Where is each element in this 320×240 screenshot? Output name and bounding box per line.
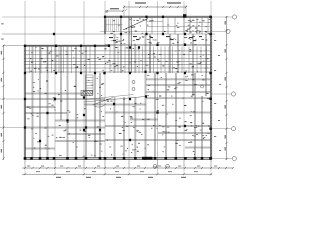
stair diagonal top wing	[123, 19, 148, 31]
grid ext right y158	[212, 158, 232, 160]
stair treads top wing	[105, 19, 123, 32]
grid line y34	[2, 33, 215, 35]
left block beams vertical	[32, 46, 101, 158]
wall left block top	[24, 44, 110, 46]
cell labels right upper	[109, 36, 202, 41]
text specks left block	[27, 78, 104, 156]
grid ext left y127	[0, 127, 24, 129]
grid bubble 1	[232, 15, 236, 19]
detail circle 1	[153, 164, 157, 168]
grid bubble 5	[232, 156, 236, 160]
grid line y17	[2, 16, 232, 18]
ramp diagonal 1	[84, 97, 146, 103]
grid ext left y99	[0, 98, 24, 100]
void circles	[132, 81, 135, 84]
text specks corridor band	[28, 47, 208, 73]
middle stair treads	[86, 75, 94, 95]
ramp arrow	[93, 98, 114, 106]
right block beams vertical	[114, 17, 207, 158]
top wing partitions	[147, 18, 212, 35]
wall bottom edge	[24, 157, 212, 159]
text specks right block	[147, 75, 211, 155]
grid line y45.7	[3, 45, 110, 47]
grid bubble 4	[231, 127, 235, 131]
vertical grid lines	[25, 1, 211, 168]
grid bubble 3	[231, 92, 235, 96]
grid ext right y128	[212, 128, 231, 130]
wall left edge	[23, 45, 25, 160]
text specks right upper	[111, 36, 207, 45]
detail circle 2	[166, 164, 170, 168]
wall wing left edge	[103, 16, 105, 34]
top dimension line	[123, 2, 187, 16]
right dimension line	[225, 16, 228, 160]
column blob wing top	[183, 14, 186, 17]
detail circle right wall	[201, 85, 204, 88]
top dimension small	[106, 8, 124, 12]
grid line y31	[100, 30, 225, 32]
corridor band beams	[24, 44, 211, 72]
text specks right top block	[187, 19, 211, 33]
left dimension line	[1, 45, 5, 160]
right margin specks	[214, 40, 221, 151]
right block beams horizontal	[84, 79, 211, 148]
columns	[24, 16, 212, 160]
column cluster bottom	[142, 157, 153, 160]
bottom dimension line 1	[22, 166, 234, 170]
grid bubble 2	[226, 29, 230, 33]
tick cross top	[125, 9, 127, 11]
corridor band vertical ribs	[29, 47, 206, 74]
stair arc	[94, 104, 106, 107]
text specks top wing	[110, 19, 210, 34]
left margin tick a	[1, 22, 3, 25]
grid ext right y94	[212, 93, 231, 95]
bottom dimension line 2	[22, 171, 212, 178]
bottom extension lines	[25, 160, 211, 176]
text specks right lower mid	[106, 99, 145, 155]
elevator shaft walls	[128, 17, 130, 73]
middle stair hatch	[81, 90, 93, 95]
left margin tick b	[1, 38, 3, 41]
wall top wing	[104, 15, 212, 17]
wing corner mark	[105, 10, 107, 12]
left block beams horizontal	[25, 93, 105, 149]
ramp diagonal 2	[84, 95, 134, 100]
wall right edge	[209, 16, 211, 160]
